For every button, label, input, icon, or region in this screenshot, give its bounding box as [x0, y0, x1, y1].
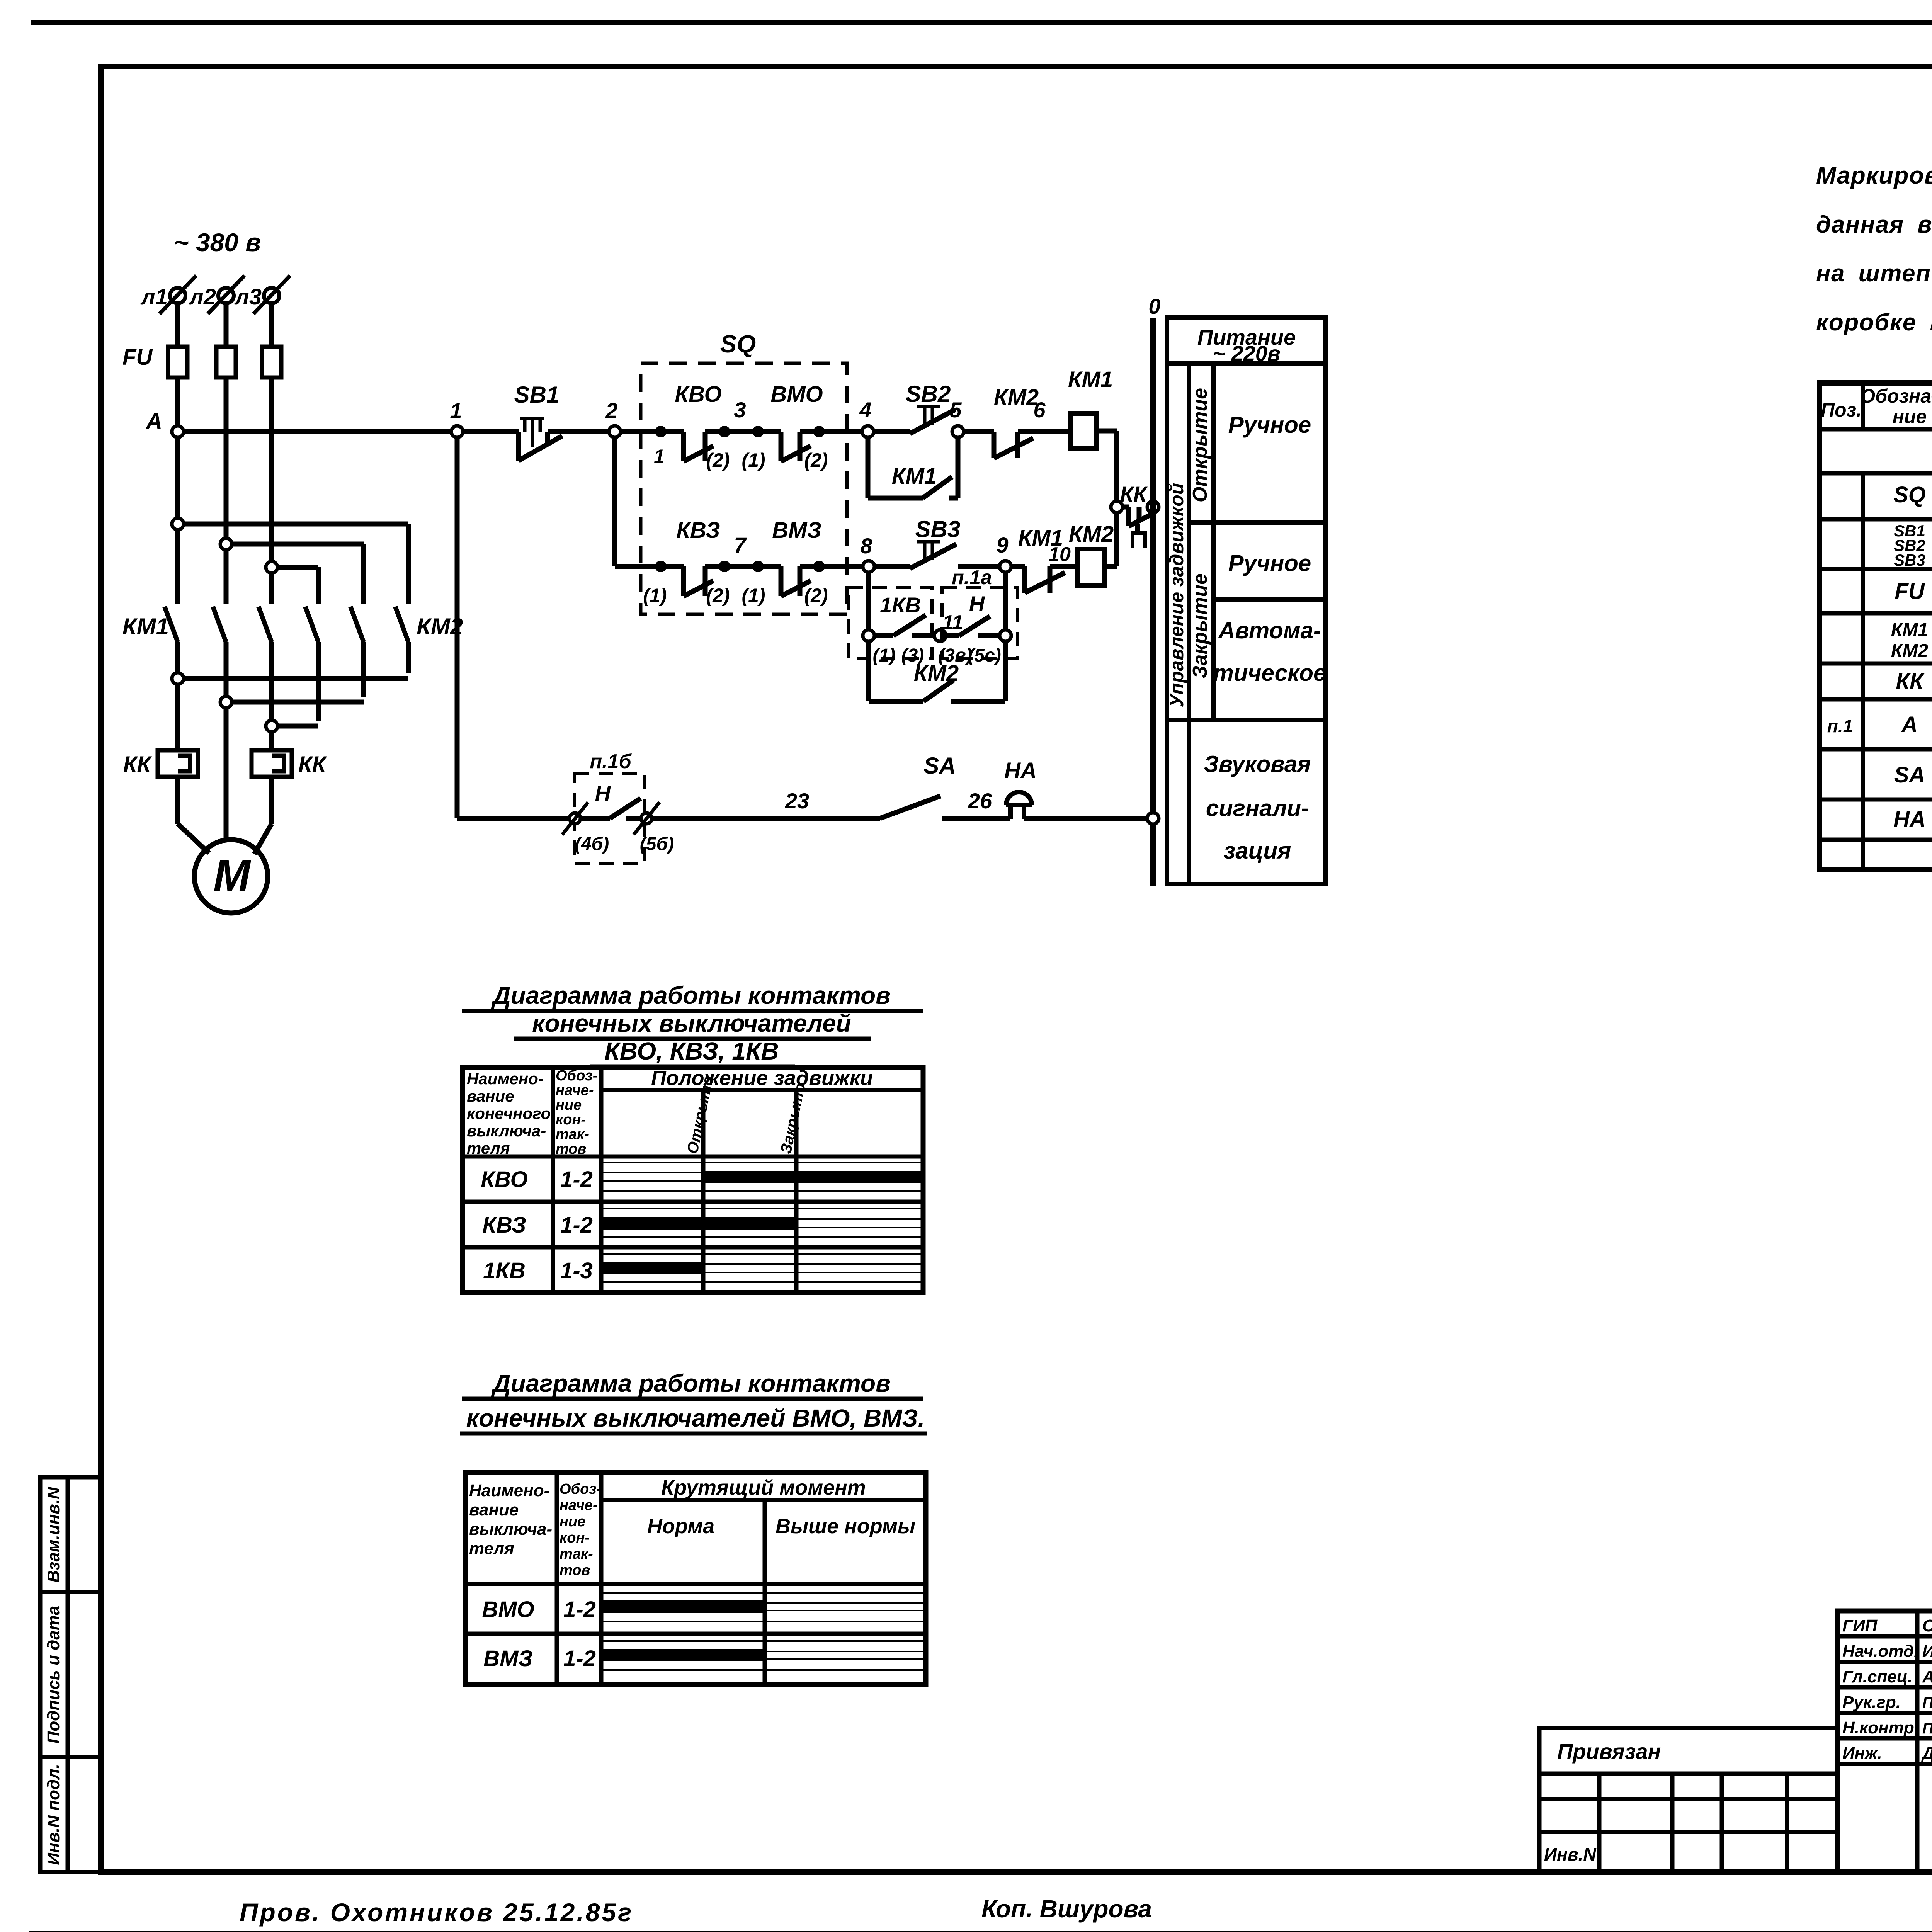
svg-text:КК: КК — [123, 752, 152, 777]
svg-text:КВЗ: КВЗ — [482, 1213, 526, 1238]
limit switch contact КВО — [654, 382, 730, 471]
svg-text:на штепсельном разъеме или сое: на штепсельном разъеме или соединительно… — [1816, 260, 1932, 287]
svg-text:КВО: КВО — [675, 382, 721, 407]
contact Н (п.1б) — [580, 798, 641, 818]
svg-text:1-3: 1-3 — [560, 1258, 593, 1283]
svg-text:(5с): (5с) — [968, 645, 1001, 666]
row КК — [1896, 665, 1932, 694]
svg-text:Автома-: Автома- — [1218, 617, 1321, 643]
wire: rung1 А to node1 — [184, 429, 451, 434]
svg-text:Обоз-: Обоз- — [560, 1481, 601, 1497]
svg-text:FU: FU — [1895, 579, 1925, 604]
wire: node2 to SQ pin1 — [621, 429, 656, 434]
pushbutton SB3 — [874, 516, 960, 568]
svg-text:SB3: SB3 — [1894, 551, 1925, 569]
svg-text:Диаграмма работы контактов: Диаграмма работы контактов — [491, 981, 891, 1009]
wire: phase Л1 lower — [178, 437, 209, 853]
svg-text:Крутящий момент: Крутящий момент — [661, 1476, 866, 1499]
svg-text:Норма: Норма — [647, 1515, 714, 1538]
svg-text:Подпись и дата: Подпись и дата — [44, 1606, 63, 1744]
svg-text:SB3: SB3 — [915, 516, 961, 542]
limit switch box SQ (dashed) — [641, 330, 847, 614]
aux contact КМ1 seal-in — [868, 437, 958, 498]
svg-text:9: 9 — [996, 533, 1008, 557]
svg-text:(5б): (5б) — [640, 834, 674, 854]
row SA — [1894, 754, 1932, 798]
svg-text:(2): (2) — [706, 585, 730, 606]
wire 7 — [724, 533, 758, 566]
svg-text:Управление задвижкой: Управление задвижкой — [1166, 483, 1187, 707]
node: tap Л3 to KM2 — [266, 561, 277, 573]
svg-text:Поз.: Поз. — [1821, 399, 1862, 421]
svg-text:ние: ние — [560, 1514, 585, 1530]
notes text — [1816, 162, 1932, 336]
svg-text:SB1: SB1 — [514, 382, 560, 408]
coil КМ1 — [1068, 367, 1113, 448]
svg-text:FU: FU — [122, 345, 153, 370]
components table grid — [1820, 383, 1932, 869]
box п.1а (dashed) — [942, 566, 1017, 659]
node 8 — [860, 534, 874, 572]
svg-text:Маркировка контактов конечных: Маркировка контактов конечных выключател… — [1816, 162, 1932, 189]
wire: phase Л1 upper — [175, 303, 180, 426]
svg-text:Смирнов: Смирнов — [1922, 1616, 1932, 1635]
svg-text:А: А — [1901, 712, 1918, 737]
NC contact КМ2 on rung1 — [964, 385, 1039, 458]
svg-text:0: 0 — [1148, 294, 1160, 318]
node 9 — [996, 533, 1011, 572]
svg-text:Прохоренкова: Прохоренкова — [1922, 1720, 1932, 1737]
node А — [172, 426, 184, 437]
wire: phase Л2 — [224, 303, 229, 840]
svg-text:SQ: SQ — [720, 330, 756, 358]
svg-text:теля: теля — [469, 1539, 514, 1558]
wire: KM2 branch taps — [184, 524, 408, 604]
svg-text:26: 26 — [968, 789, 992, 813]
svg-text:23: 23 — [785, 789, 809, 813]
svg-text:данная в скобках, соответствуе: данная в скобках, соответствует маркиров… — [1816, 211, 1932, 238]
svg-text:КК: КК — [1896, 669, 1925, 694]
svg-text:Ручное: Ручное — [1228, 550, 1311, 576]
svg-text:8: 8 — [860, 534, 872, 558]
wire: rung2 from node2 — [615, 564, 656, 569]
svg-text:НА: НА — [1004, 758, 1037, 783]
diagram1 headers — [467, 1066, 873, 1157]
motor M — [194, 840, 268, 913]
node KK left — [1111, 501, 1122, 513]
row А regulator — [1827, 702, 1932, 747]
svg-text:Ручное: Ручное — [1228, 412, 1311, 438]
fuse FU phase Л2 — [216, 347, 236, 378]
svg-text:Наимено-: Наимено- — [467, 1070, 544, 1088]
svg-text:КМ1: КМ1 — [122, 614, 169, 639]
coil КМ2 — [1069, 522, 1114, 585]
diagram2 headers — [469, 1476, 915, 1578]
diagram2 table grid — [465, 1473, 926, 1684]
svg-text:ВМО: ВМО — [482, 1597, 534, 1622]
svg-text:л3: л3 — [234, 284, 262, 310]
svg-text:наче-: наче- — [560, 1497, 598, 1514]
svg-text:п.1а: п.1а — [952, 566, 992, 589]
fuse FU phase Л3 — [262, 347, 281, 378]
svg-text:КМ1: КМ1 — [1068, 367, 1113, 392]
wire 23 — [652, 789, 880, 818]
wire 3 — [724, 398, 758, 432]
node 11 — [934, 611, 963, 641]
svg-text:11: 11 — [942, 611, 963, 634]
svg-text:Положение задвижки: Положение задвижки — [651, 1066, 873, 1090]
signal rung wire from node1 — [457, 816, 570, 821]
svg-text:Закрыто: Закрыто — [777, 1081, 809, 1155]
contactor KM1 main contacts — [165, 607, 272, 642]
svg-text:3: 3 — [734, 398, 746, 422]
wire: node9 down — [1003, 572, 1008, 630]
svg-text:4: 4 — [859, 398, 871, 422]
svg-text:1-2: 1-2 — [560, 1167, 593, 1192]
svg-text:КМ1: КМ1 — [1891, 620, 1928, 640]
svg-text:Дьякова: Дьякова — [1921, 1744, 1932, 1763]
svg-text:Взам.инв.N: Взам.инв.N — [44, 1486, 63, 1583]
svg-text:7: 7 — [734, 533, 747, 557]
svg-text:Закрытие: Закрытие — [1189, 573, 1211, 679]
node: rejoin Л2 — [220, 696, 232, 708]
svg-text:Привязан: Привязан — [1557, 1739, 1661, 1764]
svg-text:Открытие: Открытие — [1189, 388, 1211, 502]
svg-text:выключа-: выключа- — [467, 1122, 546, 1140]
svg-text:тов: тов — [556, 1141, 586, 1157]
svg-text:Пров. Охотников 25.12.85г: Пров. Охотников 25.12.85г — [240, 1898, 633, 1927]
svg-text:2: 2 — [605, 398, 617, 423]
svg-text:ВМО: ВМО — [770, 382, 823, 407]
diagram2 row ВМО — [482, 1593, 926, 1622]
row FU — [1895, 575, 1932, 604]
left stamp column boxes — [40, 1477, 100, 1872]
wire: node2 down to rung2 — [612, 437, 617, 566]
svg-text:SB2: SB2 — [906, 381, 951, 407]
svg-text:Инж.: Инж. — [1842, 1744, 1882, 1763]
wire: bell to bus — [1024, 816, 1148, 821]
svg-text:SQ: SQ — [1893, 482, 1926, 507]
signature rows — [1842, 1616, 1932, 1763]
node 2 — [605, 398, 621, 437]
limit switch contact ВМЗ — [742, 518, 828, 606]
wire: KM2 branch returns — [184, 679, 408, 726]
node 8 branch down — [866, 572, 871, 630]
wire: motor lead Л3 — [254, 777, 272, 854]
svg-text:КМ1: КМ1 — [892, 464, 937, 489]
svg-text:сигнали-: сигнали- — [1206, 795, 1309, 821]
bus 0 — [1148, 294, 1160, 886]
svg-text:п.1б: п.1б — [590, 750, 632, 773]
svg-text:1-2: 1-2 — [560, 1213, 593, 1238]
node KK right on bus — [1147, 501, 1159, 513]
contact 1КВ — [873, 615, 934, 666]
node 5 — [949, 398, 964, 437]
svg-text:Арановский: Арановский — [1922, 1667, 1932, 1686]
svg-text:Нач.отд.: Нач.отд. — [1842, 1642, 1918, 1661]
terminal Л1 — [160, 276, 196, 314]
pushbutton SB2 — [874, 381, 955, 434]
contactor KM2 main contacts — [305, 607, 408, 721]
node: branch right — [1000, 630, 1011, 641]
svg-text:КВО: КВО — [481, 1167, 527, 1192]
node: rejoin Л1 — [172, 673, 184, 684]
svg-text:п.1: п.1 — [1827, 716, 1853, 736]
svg-text:SA: SA — [923, 753, 956, 779]
svg-text:Диаграмма работы контактов: Диаграмма работы контактов — [491, 1369, 891, 1397]
svg-text:КВЗ: КВЗ — [676, 518, 720, 543]
svg-text:1-2: 1-2 — [563, 1597, 596, 1622]
row SB1 SB2 SB3 — [1894, 522, 1932, 570]
svg-text:КВО, КВЗ, 1КВ: КВО, КВЗ, 1КВ — [604, 1037, 779, 1065]
svg-text:Инв.N подл.: Инв.N подл. — [44, 1764, 63, 1865]
svg-text:(1): (1) — [742, 585, 765, 606]
title block left extension — [1539, 1728, 1837, 1872]
svg-text:1: 1 — [450, 398, 462, 423]
svg-text:коробке привода задвижки.: коробке привода задвижки. — [1816, 309, 1932, 336]
svg-text:кон-: кон- — [560, 1530, 590, 1546]
bell НА — [1004, 758, 1037, 819]
svg-text:КМ2: КМ2 — [1891, 641, 1928, 661]
svg-text:10: 10 — [1048, 543, 1071, 566]
svg-text:так-: так- — [560, 1546, 593, 1562]
svg-text:~ 380 в: ~ 380 в — [174, 228, 261, 257]
svg-text:вание: вание — [469, 1500, 519, 1519]
terminal (4б) — [562, 802, 609, 854]
svg-text:Обоз-: Обоз- — [556, 1068, 597, 1084]
diagram1 row 1КВ — [483, 1254, 923, 1283]
svg-text:НА: НА — [1893, 807, 1926, 832]
svg-text:л2: л2 — [189, 284, 216, 310]
svg-text:Н.контр.: Н.контр. — [1842, 1718, 1919, 1737]
svg-text:конечных выключателей: конечных выключателей — [532, 1009, 851, 1037]
contact Н (п.1а) — [938, 616, 1001, 666]
svg-text:М: М — [213, 851, 251, 900]
wire: ВМО to node4 — [819, 429, 862, 434]
node on bus signal rung — [1147, 813, 1159, 824]
svg-text:Коп. Вшурова: Коп. Вшурова — [981, 1895, 1152, 1923]
box п.1б (dashed) — [575, 750, 645, 864]
limit switch contact КВЗ — [643, 518, 730, 606]
svg-text:(2): (2) — [706, 449, 730, 471]
svg-text:Ильичев: Ильичев — [1922, 1642, 1932, 1661]
wire: coil КМ2 to KK node — [1050, 513, 1117, 566]
svg-text:Наимено-: Наимено- — [469, 1481, 549, 1500]
svg-text:Выше нормы: Выше нормы — [776, 1515, 915, 1538]
diagram1 row КВЗ — [482, 1209, 923, 1238]
wire: SB1 to node2 — [548, 429, 609, 434]
svg-text:(2): (2) — [804, 585, 828, 606]
svg-text:Инв.N: Инв.N — [1544, 1844, 1596, 1864]
row НА — [1893, 807, 1932, 832]
svg-text:КМ2: КМ2 — [1069, 522, 1114, 547]
svg-text:кон-: кон- — [556, 1112, 586, 1128]
svg-text:выключа-: выключа- — [469, 1520, 552, 1539]
svg-text:Прохоренкова: Прохоренкова — [1922, 1694, 1932, 1711]
svg-text:конечного: конечного — [467, 1104, 551, 1122]
diagram1 title — [462, 981, 923, 1066]
thermal relay KK contact — [1120, 482, 1151, 548]
svg-text:А: А — [145, 409, 162, 434]
switch SA — [880, 753, 956, 818]
svg-text:ние: ние — [556, 1097, 582, 1113]
wire: phase Л3 — [269, 303, 274, 750]
diagram1 row КВО — [481, 1162, 923, 1192]
thermal relay KK heater phase Л1 — [158, 750, 198, 777]
svg-text:1-2: 1-2 — [563, 1646, 596, 1671]
svg-text:Звуковая: Звуковая — [1204, 751, 1311, 777]
svg-text:Н: Н — [969, 592, 985, 616]
svg-text:1: 1 — [654, 446, 665, 467]
svg-text:Обозначе-: Обозначе- — [1860, 385, 1932, 407]
svg-text:SA: SA — [1894, 762, 1925, 787]
svg-text:КК: КК — [1120, 482, 1148, 506]
wire: coil КМ1 to KK — [1097, 431, 1117, 501]
svg-text:(1): (1) — [742, 449, 765, 471]
limit switch contact ВМО — [742, 382, 828, 471]
svg-text:теля: теля — [467, 1139, 510, 1157]
terminal Л3 — [253, 276, 290, 314]
node 4 — [859, 398, 874, 437]
svg-text:~ 220в: ~ 220в — [1213, 341, 1281, 366]
wire 26 — [942, 789, 1010, 818]
NC contact КМ1 on rung2 — [1011, 526, 1071, 593]
svg-text:КМ2: КМ2 — [994, 385, 1039, 410]
terminal Л2 — [208, 276, 245, 314]
svg-text:ГИП: ГИП — [1842, 1616, 1878, 1635]
svg-text:ВМЗ: ВМЗ — [483, 1646, 532, 1671]
svg-text:1КВ: 1КВ — [880, 593, 921, 617]
svg-text:(4б): (4б) — [575, 834, 609, 854]
svg-text:1КВ: 1КВ — [483, 1258, 526, 1283]
aux contact КМ2 seal-in — [869, 641, 1005, 701]
node: rejoin Л3 — [266, 720, 277, 732]
svg-text:тов: тов — [560, 1562, 590, 1578]
terminal (5б) — [634, 802, 674, 854]
svg-text:так-: так- — [556, 1126, 589, 1143]
diagram1 table grid — [463, 1067, 923, 1293]
diagram2 row ВМЗ — [483, 1641, 926, 1671]
wire: SB3 to node9 — [958, 564, 1000, 569]
box 1КВ (dashed) — [848, 587, 932, 658]
node: tap Л2 to KM2 — [220, 538, 232, 550]
svg-text:КК: КК — [298, 752, 327, 777]
svg-text:(1): (1) — [873, 645, 896, 666]
svg-text:тическое: тическое — [1213, 660, 1327, 686]
svg-text:ВМЗ: ВМЗ — [772, 518, 821, 543]
node 1 — [450, 398, 463, 437]
svg-text:ние: ние — [1893, 406, 1927, 427]
row SQ — [1893, 474, 1932, 520]
svg-text:(2): (2) — [804, 449, 828, 471]
thermal relay KK heater phase Л3 — [252, 750, 292, 777]
svg-text:Н: Н — [595, 781, 611, 805]
legend table: function column — [1167, 318, 1326, 884]
wire 6 — [1018, 398, 1071, 432]
svg-text:6: 6 — [1033, 398, 1046, 422]
svg-text:5: 5 — [949, 398, 962, 422]
fuse FU phase Л1 — [168, 347, 187, 378]
title block grid — [1837, 1611, 1932, 1872]
wire: ВМЗ to node8 — [819, 564, 863, 569]
svg-text:Гл.спец.: Гл.спец. — [1842, 1667, 1912, 1686]
row КМ1 КМ2 — [1891, 620, 1932, 661]
node: tap Л1 to KM2 — [172, 518, 184, 530]
svg-text:(1): (1) — [643, 585, 667, 606]
node: branch left — [863, 630, 874, 641]
svg-text:Рук.гр.: Рук.гр. — [1842, 1693, 1901, 1712]
pushbutton SB1 — [463, 382, 562, 461]
components table headers — [1821, 385, 1932, 429]
wire: node1 down to signal rung — [455, 437, 460, 818]
svg-text:вание: вание — [467, 1087, 514, 1105]
svg-text:наче-: наче- — [556, 1082, 594, 1099]
diagram2 title — [460, 1369, 927, 1434]
svg-text:л1: л1 — [140, 284, 168, 310]
svg-text:конечных выключателей ВМО, ВМЗ: конечных выключателей ВМО, ВМЗ. — [466, 1404, 925, 1432]
svg-text:зация: зация — [1224, 838, 1291, 864]
